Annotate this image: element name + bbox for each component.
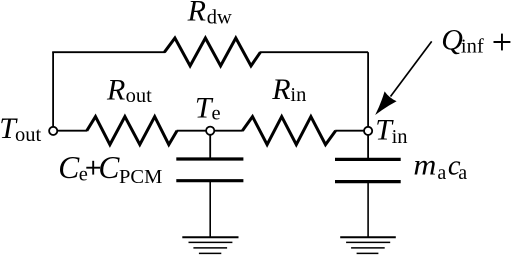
svg-text:R: R: [187, 0, 206, 27]
svg-text:C: C: [98, 150, 120, 185]
capacitor Ce+CPCM bottom plate: [176, 179, 243, 182]
wire Te down to capacitor Ce: [209, 135, 211, 159]
ground left: [182, 237, 238, 253]
svg-text:PCM: PCM: [119, 166, 162, 188]
ground right: [340, 237, 396, 253]
label Rdw: [187, 0, 232, 29]
wire Rout to Te: [177, 130, 207, 132]
svg-text:out: out: [126, 85, 153, 107]
arrow Qinf head: [375, 91, 396, 115]
wire Tout to Rout: [58, 130, 88, 132]
svg-text:R: R: [106, 74, 125, 107]
svg-text:R: R: [271, 73, 290, 106]
wire top horizontal left lead: [52, 51, 165, 53]
wire left capacitor to ground: [209, 182, 211, 237]
label Rout: [106, 74, 152, 108]
svg-text:m: m: [413, 149, 436, 182]
resistor Rin: [242, 117, 335, 145]
resistor Rdw: [164, 38, 260, 66]
wire Te to Rin: [214, 130, 243, 132]
wire right capacitor to ground: [367, 182, 369, 236]
svg-text:dw: dw: [207, 7, 232, 29]
label Tin: [375, 113, 407, 147]
svg-text:in: in: [392, 126, 408, 148]
label Rin: [271, 73, 306, 106]
resistor Rout: [87, 117, 177, 145]
label Ce+CPCM: [58, 150, 88, 186]
svg-text:C: C: [58, 150, 80, 185]
wire Tin down to capacitor maca: [367, 135, 369, 159]
svg-text:e: e: [212, 103, 221, 125]
node Te circle: [206, 127, 214, 135]
label Tout: [0, 112, 41, 146]
wire Rin to Tin: [335, 130, 364, 132]
capacitor Ce+CPCM top plate: [176, 157, 243, 160]
node Tout circle: [49, 127, 57, 135]
svg-text:a: a: [437, 162, 446, 184]
label Te: [195, 91, 221, 124]
wire top horizontal right lead: [260, 51, 368, 53]
svg-text:a: a: [458, 162, 467, 184]
svg-text:out: out: [15, 124, 42, 146]
wire top-right vertical: [367, 52, 369, 126]
svg-text:inf: inf: [461, 35, 484, 57]
node Tin circle: [364, 127, 372, 135]
capacitor maca top plate: [335, 158, 401, 161]
wire top-left vertical: [52, 52, 54, 126]
arrow Qinf shaft: [391, 41, 432, 96]
label Qinf+: [441, 24, 484, 58]
label maca: [413, 149, 467, 184]
svg-text:in: in: [290, 84, 306, 106]
capacitor maca bottom plate: [335, 180, 401, 183]
